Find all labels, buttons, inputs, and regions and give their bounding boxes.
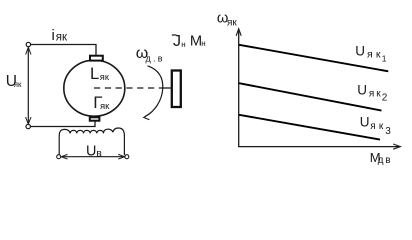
svg-text:як: як [367,49,381,61]
svg-text:3: 3 [385,126,391,137]
node A (top armature terminal) [26,42,30,46]
x-axis (graph) [238,146,400,148]
terminal circle (field winding left) [57,155,61,159]
motor armature circle M1 [64,60,125,116]
voltage arrow U_в (double-headed horizontal) [62,156,125,158]
svg-text:як: як [56,32,68,44]
svg-text:U: U [360,115,370,130]
svg-text:н: н [181,40,185,49]
svg-text:дв: дв [378,155,391,166]
characteristic line U_як3 [239,115,380,140]
wire top horizontal to brush [31,45,96,56]
svg-text:д.в: д.в [146,54,163,64]
brush (bottom) [90,117,100,120]
svg-text:L: L [90,65,99,83]
terminal circle (field winding right) [125,155,129,159]
svg-text:в: в [96,147,102,159]
svg-text:U: U [357,82,367,97]
brush (top) [90,56,103,61]
characteristic line U_як1 [239,45,388,72]
wire bottom horizontal from node to brush [31,121,95,127]
svg-text:i: i [52,27,55,44]
svg-text:1: 1 [382,53,387,63]
svg-text:U: U [86,143,96,159]
svg-text:U: U [355,44,365,59]
y-axis (graph) [238,30,240,147]
svg-text:н: н [201,39,205,48]
node B (bottom armature terminal) [26,124,30,128]
svg-text:2: 2 [382,92,388,103]
svg-text:як: як [370,121,384,132]
field winding L_в (coil) [59,128,124,155]
svg-text:як: як [14,80,22,89]
characteristic line U_як2 [239,83,382,110]
svg-text:як: як [100,72,110,82]
shaft dashed line [94,87,166,89]
svg-text:як: як [100,101,110,112]
svg-text:як: як [369,88,381,99]
voltage arrow U_як (double-headed vertical) [27,48,29,124]
load inertia block [172,71,181,108]
svg-text:як: як [227,18,237,29]
rotation arrow [145,66,162,117]
